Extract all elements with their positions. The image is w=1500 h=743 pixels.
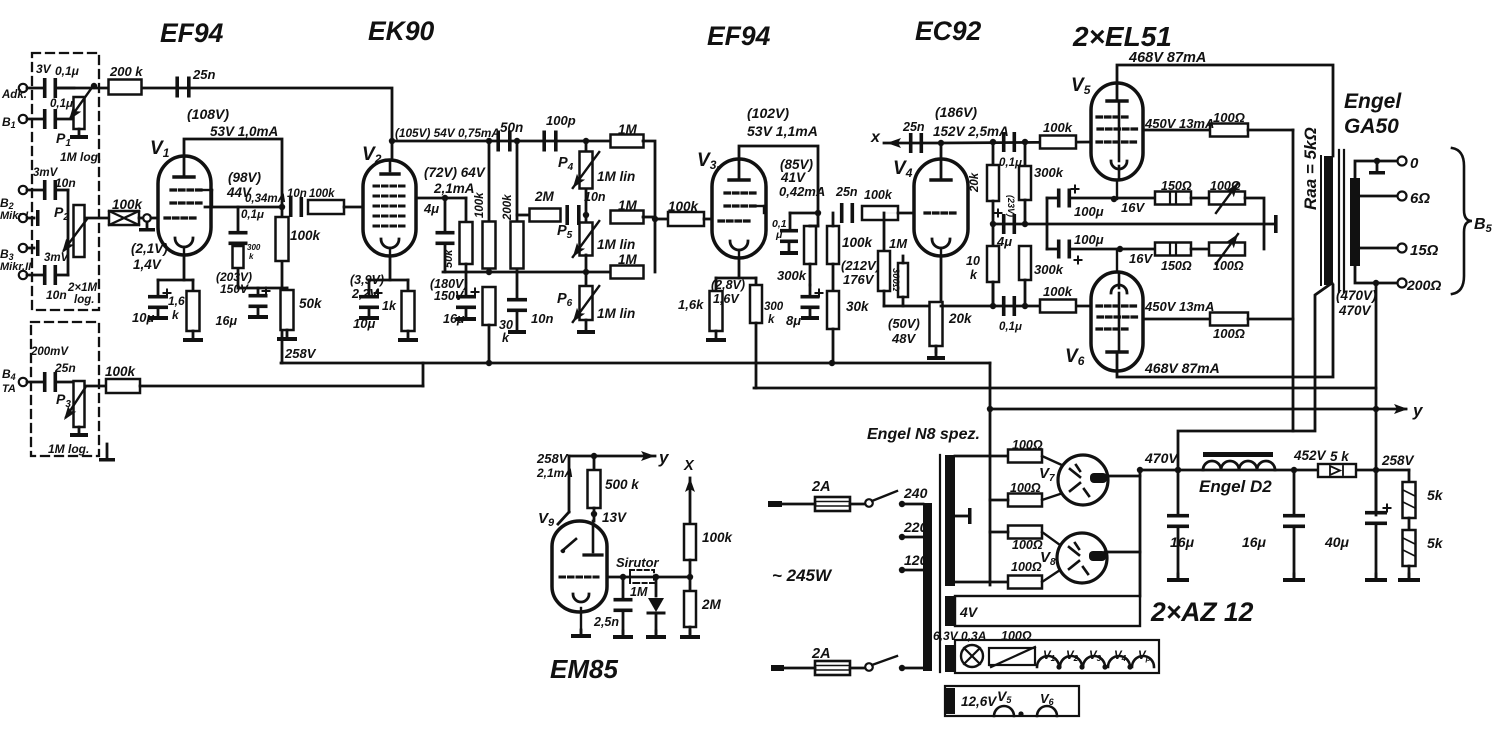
svg-text:Raa = 5kΩ: Raa = 5kΩ — [1301, 127, 1320, 210]
svg-text:0,1μ: 0,1μ — [241, 209, 264, 221]
svg-text:200 k: 200 k — [109, 64, 143, 79]
svg-text:2×AZ 12: 2×AZ 12 — [1150, 597, 1254, 627]
svg-text:1M log.: 1M log. — [60, 150, 101, 164]
svg-text:2A: 2A — [811, 646, 831, 662]
svg-text:50k: 50k — [443, 249, 455, 268]
svg-text:1M lin: 1M lin — [597, 237, 635, 252]
svg-text:6Ω: 6Ω — [1410, 190, 1430, 207]
svg-text:x: x — [870, 129, 881, 146]
svg-text:100Ω: 100Ω — [1011, 560, 1042, 574]
svg-text:1M: 1M — [889, 236, 908, 251]
svg-text:0,34mA: 0,34mA — [245, 193, 286, 205]
svg-text:100k: 100k — [1043, 284, 1073, 299]
svg-text:(186V): (186V) — [935, 104, 977, 120]
svg-text:2,5n: 2,5n — [593, 615, 619, 629]
svg-text:1M: 1M — [630, 585, 648, 599]
svg-text:2×EL51: 2×EL51 — [1072, 21, 1172, 52]
svg-text:100Ω: 100Ω — [1213, 110, 1245, 125]
svg-text:(2,1V): (2,1V) — [131, 241, 168, 256]
svg-text:(2,8V): (2,8V) — [711, 278, 745, 292]
svg-text:5k: 5k — [1427, 535, 1444, 551]
svg-text:3V: 3V — [36, 62, 52, 76]
svg-text:4V: 4V — [959, 604, 979, 620]
svg-text:16V: 16V — [1129, 251, 1153, 266]
svg-text:10n: 10n — [55, 176, 76, 190]
svg-text:16μ: 16μ — [1242, 534, 1267, 550]
svg-text:25n: 25n — [192, 67, 215, 82]
svg-text:100k: 100k — [842, 235, 874, 250]
svg-text:100Ω: 100Ω — [1012, 538, 1043, 552]
svg-text:468V 87mA: 468V 87mA — [1144, 360, 1220, 376]
svg-text:2×1M: 2×1M — [67, 282, 98, 294]
svg-text:0,1μ: 0,1μ — [50, 98, 73, 110]
svg-text:100μ: 100μ — [1074, 204, 1104, 219]
svg-text:3mV: 3mV — [44, 252, 70, 264]
svg-text:100k: 100k — [105, 364, 137, 379]
svg-text:100Ω: 100Ω — [1213, 326, 1245, 341]
svg-text:13V: 13V — [602, 510, 627, 525]
svg-text:452V: 452V — [1293, 448, 1327, 463]
svg-text:100k: 100k — [864, 188, 893, 202]
svg-text:Adk.: Adk. — [1, 89, 27, 101]
svg-text:120: 120 — [904, 552, 928, 568]
svg-text:200k: 200k — [502, 194, 514, 221]
svg-text:1M: 1M — [618, 252, 638, 267]
svg-text:100k: 100k — [1043, 120, 1073, 135]
svg-text:48V: 48V — [891, 331, 916, 346]
svg-text:10n: 10n — [531, 311, 553, 326]
svg-text:y: y — [1412, 401, 1424, 420]
svg-text:Engel D2: Engel D2 — [1199, 477, 1272, 496]
svg-text:25n: 25n — [54, 361, 76, 375]
svg-text:log.: log. — [74, 294, 94, 306]
svg-text:Engel: Engel — [1344, 90, 1402, 113]
svg-text:300k: 300k — [1034, 262, 1064, 277]
svg-text:2,2V: 2,2V — [351, 287, 379, 301]
svg-text:300k: 300k — [777, 268, 807, 283]
svg-text:25n: 25n — [902, 120, 925, 134]
svg-text:20k: 20k — [948, 311, 973, 326]
svg-text:240: 240 — [903, 485, 928, 501]
svg-text:EM85: EM85 — [550, 654, 618, 684]
svg-text:EF94: EF94 — [160, 18, 224, 48]
svg-text:16μ: 16μ — [443, 312, 465, 326]
svg-text:2A: 2A — [811, 479, 831, 495]
svg-text:1,6k: 1,6k — [678, 297, 704, 312]
svg-text:Engel N8 spez.: Engel N8 spez. — [867, 426, 980, 443]
svg-text:Sirutor: Sirutor — [616, 555, 660, 570]
svg-text:(23V): (23V) — [1006, 195, 1016, 217]
svg-text:(98V): (98V) — [228, 170, 262, 185]
svg-text:(470V): (470V) — [1336, 288, 1377, 303]
svg-text:470V: 470V — [1338, 303, 1372, 318]
svg-text:450V 13mA: 450V 13mA — [1144, 299, 1214, 314]
svg-text:10n: 10n — [584, 190, 606, 204]
svg-text:1M lin: 1M lin — [597, 169, 635, 184]
svg-text:150V: 150V — [220, 282, 249, 296]
svg-text:12,6V: 12,6V — [961, 694, 997, 709]
svg-text:10μ: 10μ — [132, 310, 154, 325]
svg-text:450V 13mA: 450V 13mA — [1144, 116, 1214, 131]
svg-text:30: 30 — [499, 318, 513, 332]
svg-text:1,6: 1,6 — [168, 294, 185, 308]
svg-text:100k: 100k — [474, 192, 486, 218]
svg-text:(105V) 54V 0,75mA: (105V) 54V 0,75mA — [395, 126, 500, 140]
svg-text:(72V) 64V: (72V) 64V — [424, 165, 486, 180]
svg-text:300Ω: 300Ω — [890, 268, 901, 292]
svg-text:TA: TA — [2, 383, 16, 395]
svg-text:4μ: 4μ — [423, 201, 439, 216]
svg-text:10: 10 — [966, 254, 980, 268]
svg-text:0,1μ: 0,1μ — [999, 321, 1022, 333]
svg-text:50k: 50k — [299, 296, 323, 311]
svg-text:150V: 150V — [434, 289, 465, 303]
svg-text:220: 220 — [903, 519, 928, 535]
svg-text:30k: 30k — [846, 299, 870, 314]
svg-text:16μ: 16μ — [216, 314, 238, 328]
svg-text:μ: μ — [775, 229, 783, 241]
svg-text:40μ: 40μ — [1324, 534, 1350, 550]
svg-text:1,6V: 1,6V — [713, 292, 740, 306]
svg-text:200Ω: 200Ω — [1406, 277, 1441, 293]
svg-text:GA50: GA50 — [1344, 115, 1399, 138]
svg-text:X: X — [683, 458, 695, 474]
svg-text:EC92: EC92 — [915, 16, 982, 46]
svg-text:(212V): (212V) — [841, 258, 880, 273]
svg-text:100μ: 100μ — [1074, 232, 1104, 247]
svg-text:5 k: 5 k — [1330, 449, 1350, 464]
svg-text:1M lin: 1M lin — [597, 306, 635, 321]
svg-text:0,42mA: 0,42mA — [779, 184, 825, 199]
svg-text:100k: 100k — [290, 228, 322, 243]
svg-text:152V 2,5mA: 152V 2,5mA — [933, 124, 1009, 139]
svg-text:y: y — [658, 448, 670, 467]
svg-text:20k: 20k — [969, 172, 981, 193]
svg-text:1M log.: 1M log. — [48, 442, 89, 456]
svg-text:200mV: 200mV — [30, 346, 69, 358]
svg-text:150Ω: 150Ω — [1161, 259, 1192, 273]
svg-text:41V: 41V — [780, 170, 806, 185]
svg-text:15Ω: 15Ω — [1410, 242, 1439, 259]
svg-text:EF94: EF94 — [707, 21, 771, 51]
svg-text:25n: 25n — [835, 185, 858, 199]
svg-text:2M: 2M — [701, 597, 722, 612]
svg-text:50n: 50n — [500, 120, 523, 135]
svg-text:16V: 16V — [1121, 200, 1145, 215]
svg-text:2,1mA: 2,1mA — [433, 181, 475, 196]
svg-text:(108V): (108V) — [187, 106, 229, 122]
svg-text:500 k: 500 k — [605, 477, 640, 492]
svg-text:0: 0 — [1410, 155, 1419, 172]
svg-text:5k: 5k — [1427, 487, 1444, 503]
svg-text:1M: 1M — [618, 198, 638, 213]
svg-text:470V: 470V — [1144, 450, 1179, 466]
svg-text:(3,9V): (3,9V) — [350, 273, 384, 287]
svg-text:16μ: 16μ — [1170, 534, 1195, 550]
svg-text:2,1mA: 2,1mA — [536, 466, 573, 480]
svg-text:258V: 258V — [1381, 453, 1415, 468]
svg-text:53V 1,0mA: 53V 1,0mA — [210, 124, 278, 139]
svg-text:300k: 300k — [1034, 165, 1064, 180]
svg-text:100p: 100p — [546, 113, 576, 128]
svg-text:(50V): (50V) — [888, 316, 920, 331]
svg-text:10n: 10n — [46, 288, 67, 302]
svg-text:k: k — [970, 268, 978, 282]
svg-text:10μ: 10μ — [353, 316, 375, 331]
svg-text:0,1μ: 0,1μ — [55, 64, 80, 78]
svg-text:~ 245W: ~ 245W — [772, 566, 833, 585]
svg-text:k: k — [249, 252, 254, 261]
svg-text:258V: 258V — [284, 346, 317, 361]
svg-text:1k: 1k — [382, 299, 397, 313]
svg-text:258V: 258V — [536, 451, 569, 466]
svg-text:300: 300 — [247, 243, 261, 252]
svg-text:EK90: EK90 — [368, 16, 435, 46]
svg-text:300: 300 — [764, 301, 784, 313]
svg-text:2M: 2M — [534, 189, 555, 204]
svg-text:100k: 100k — [702, 530, 734, 545]
svg-text:(102V): (102V) — [747, 105, 789, 121]
svg-text:1,4V: 1,4V — [133, 257, 162, 272]
svg-text:100k: 100k — [309, 188, 335, 200]
svg-text:176V: 176V — [843, 272, 875, 287]
svg-text:53V 1,1mA: 53V 1,1mA — [747, 123, 818, 139]
svg-text:k: k — [768, 314, 775, 326]
svg-text:8μ: 8μ — [786, 313, 801, 328]
svg-text:Mikr.II: Mikr.II — [0, 261, 32, 273]
